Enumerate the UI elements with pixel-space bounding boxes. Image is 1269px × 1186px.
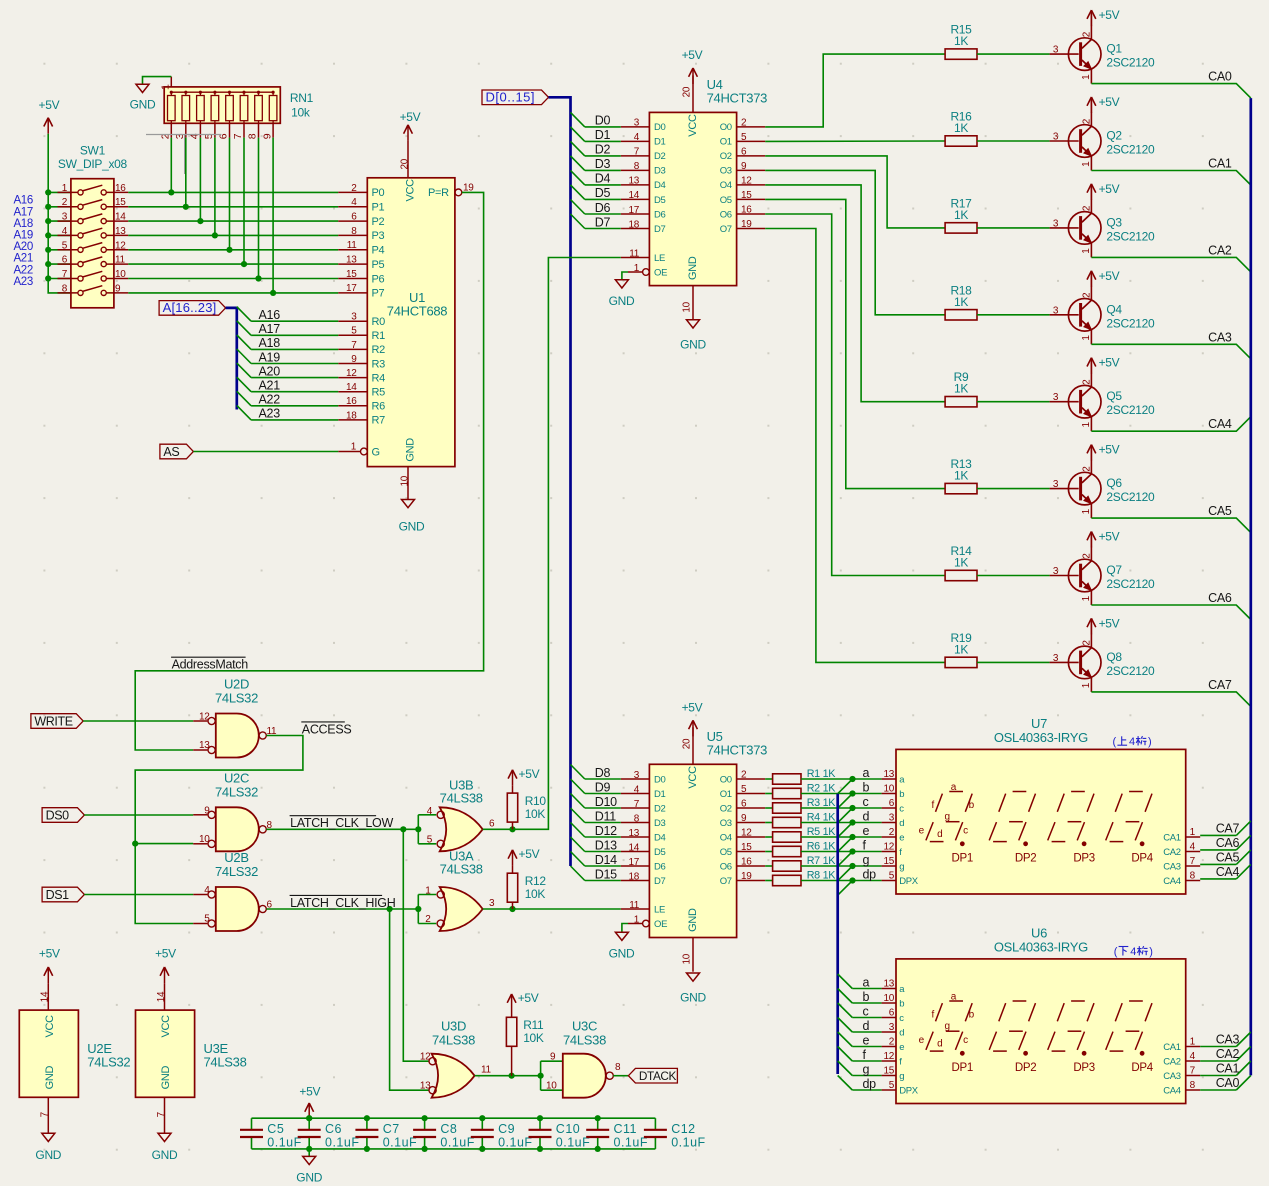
bus D[0..15] bbox=[549, 97, 571, 866]
svg-text:CA3: CA3 bbox=[1216, 1033, 1240, 1047]
svg-text:4: 4 bbox=[1130, 946, 1136, 958]
net label CA1 bbox=[1208, 157, 1232, 171]
wire net WRITE bbox=[83, 720, 193, 722]
svg-text:O7: O7 bbox=[720, 876, 732, 887]
svg-text:74HCT373: 74HCT373 bbox=[707, 742, 768, 757]
ground GND (U1) bbox=[399, 500, 425, 534]
svg-text:6: 6 bbox=[351, 212, 357, 223]
svg-text:VCC: VCC bbox=[160, 1015, 172, 1038]
net label LATCH_CLK_LOW bbox=[290, 816, 394, 830]
svg-text:5: 5 bbox=[204, 914, 210, 925]
svg-text:e: e bbox=[863, 1033, 870, 1047]
ground GND (U4) bbox=[680, 320, 706, 352]
svg-text:0.1uF: 0.1uF bbox=[325, 1136, 359, 1150]
transistor Q6 2SC2120 bbox=[1050, 460, 1155, 518]
svg-text:9: 9 bbox=[204, 805, 210, 816]
svg-text:DP1: DP1 bbox=[952, 1062, 973, 1074]
svg-text:Q5: Q5 bbox=[1106, 389, 1122, 403]
svg-text:GND: GND bbox=[609, 294, 635, 308]
svg-text:3: 3 bbox=[1053, 45, 1059, 56]
svg-text:g: g bbox=[863, 853, 870, 867]
svg-text:O7: O7 bbox=[720, 224, 732, 235]
svg-text:DS1: DS1 bbox=[46, 888, 70, 902]
svg-text:O4: O4 bbox=[720, 832, 732, 843]
net labels a-g dp (U6) bbox=[863, 975, 877, 1091]
svg-text:16: 16 bbox=[115, 183, 126, 194]
bus entries U6 segments bbox=[838, 974, 853, 1090]
resistor R9 1K bbox=[945, 370, 977, 407]
svg-text:A23: A23 bbox=[13, 276, 33, 288]
svg-text:12: 12 bbox=[199, 712, 210, 723]
svg-text:13: 13 bbox=[420, 1081, 431, 1092]
svg-text:A16: A16 bbox=[259, 308, 281, 322]
svg-text:SW_DIP_x08: SW_DIP_x08 bbox=[58, 157, 128, 171]
svg-text:GND: GND bbox=[44, 1066, 56, 1090]
gate U3B 74LS38 bbox=[427, 778, 495, 852]
wire U3B out to U4 LE bbox=[483, 258, 621, 830]
svg-text:O6: O6 bbox=[720, 209, 732, 220]
svg-text:D9: D9 bbox=[595, 780, 611, 794]
svg-text:2SC2120: 2SC2120 bbox=[1106, 490, 1155, 504]
svg-text:D0: D0 bbox=[595, 114, 611, 128]
svg-text:5: 5 bbox=[351, 326, 357, 337]
wire net LATCH_CLK_LOW bbox=[266, 815, 436, 844]
wires D0-D7 to U4 bbox=[585, 127, 621, 229]
svg-text:d: d bbox=[863, 809, 870, 823]
svg-text:c: c bbox=[899, 803, 904, 814]
wires U6 CA1-CA4 to bus bbox=[1200, 1032, 1251, 1090]
svg-text:R5: R5 bbox=[372, 387, 386, 399]
svg-text:OE: OE bbox=[654, 919, 667, 930]
svg-text:DP1: DP1 bbox=[952, 852, 973, 864]
svg-text:R12: R12 bbox=[525, 874, 547, 888]
gate U3A 74LS38 bbox=[425, 849, 495, 932]
svg-text:g: g bbox=[944, 811, 949, 822]
svg-text:c: c bbox=[863, 795, 869, 809]
svg-text:2: 2 bbox=[1082, 292, 1093, 298]
ground GND (U3E) bbox=[152, 1133, 178, 1162]
svg-text:3: 3 bbox=[1053, 218, 1059, 229]
bus A[16..23] bbox=[226, 308, 237, 410]
capacitor C8 0.1uF bbox=[413, 1118, 475, 1149]
svg-text:+5V: +5V bbox=[400, 110, 421, 124]
svg-text:O1: O1 bbox=[720, 789, 732, 800]
transistor Q4 2SC2120 bbox=[1050, 286, 1155, 345]
svg-text:OSL40363-IRYG: OSL40363-IRYG bbox=[994, 940, 1088, 955]
svg-text:D0: D0 bbox=[654, 122, 666, 133]
svg-text:1: 1 bbox=[1081, 335, 1092, 341]
svg-text:d: d bbox=[937, 829, 942, 840]
svg-text:CA5: CA5 bbox=[1208, 504, 1232, 518]
svg-text:74LS38: 74LS38 bbox=[440, 791, 483, 806]
svg-text:1: 1 bbox=[1081, 422, 1092, 428]
svg-text:O2: O2 bbox=[720, 803, 732, 814]
svg-text:a: a bbox=[863, 766, 870, 780]
svg-text:GND: GND bbox=[399, 520, 425, 534]
svg-text:3: 3 bbox=[1053, 305, 1059, 316]
svg-text:D3: D3 bbox=[654, 166, 666, 177]
hierarchical labels A16-A23 bbox=[13, 195, 33, 288]
svg-text:1K: 1K bbox=[954, 556, 968, 570]
wire segment c to U7 bbox=[801, 807, 882, 809]
svg-text:DS0: DS0 bbox=[46, 808, 70, 822]
svg-text:12: 12 bbox=[883, 1051, 894, 1062]
svg-text:OE: OE bbox=[654, 267, 667, 278]
svg-text:+5V: +5V bbox=[518, 991, 539, 1005]
svg-text:AS: AS bbox=[163, 445, 179, 459]
svg-text:2: 2 bbox=[1082, 379, 1093, 385]
svg-text:D7: D7 bbox=[654, 876, 666, 887]
bus label A[16..23] bbox=[159, 300, 226, 315]
power +5V (U3E) bbox=[155, 947, 176, 984]
gate U3D 74LS38 bbox=[420, 1019, 492, 1098]
transistor Q2 2SC2120 bbox=[1050, 112, 1155, 171]
svg-text:O1: O1 bbox=[720, 137, 732, 148]
svg-text:G: G bbox=[372, 446, 380, 458]
svg-text:VCC: VCC bbox=[687, 766, 699, 789]
svg-text:b: b bbox=[969, 1010, 975, 1021]
svg-text:R0: R0 bbox=[372, 316, 386, 328]
svg-text:2: 2 bbox=[62, 197, 68, 208]
svg-text:3: 3 bbox=[1053, 479, 1059, 490]
svg-text:9: 9 bbox=[351, 354, 357, 365]
svg-text:Q2: Q2 bbox=[1106, 129, 1122, 143]
wire segment g to U7 bbox=[801, 865, 882, 867]
svg-text:2: 2 bbox=[351, 183, 357, 194]
svg-text:Q1: Q1 bbox=[1106, 42, 1122, 56]
svg-text:4: 4 bbox=[634, 784, 640, 795]
bus entries D0-D7 bbox=[571, 112, 585, 228]
ground GND (RN1) bbox=[130, 84, 156, 111]
svg-text:R6: R6 bbox=[372, 401, 386, 413]
svg-text:6: 6 bbox=[741, 799, 747, 810]
svg-text:D[0..15]: D[0..15] bbox=[486, 90, 536, 105]
svg-text:18: 18 bbox=[346, 410, 357, 421]
svg-text:GND: GND bbox=[609, 947, 635, 961]
svg-text:C6: C6 bbox=[325, 1122, 342, 1136]
wire R18 to Q4 base bbox=[977, 314, 1050, 316]
svg-text:A19: A19 bbox=[13, 230, 33, 242]
svg-text:O3: O3 bbox=[720, 818, 732, 829]
svg-text:RN1: RN1 bbox=[290, 91, 314, 105]
svg-text:d: d bbox=[899, 1027, 904, 1038]
wire R9 to Q5 base bbox=[977, 401, 1050, 403]
resistor R3 1K bbox=[765, 797, 836, 813]
svg-text:GND: GND bbox=[680, 338, 706, 352]
svg-text:GND: GND bbox=[405, 438, 417, 462]
svg-text:8: 8 bbox=[351, 226, 357, 237]
svg-text:A22: A22 bbox=[13, 264, 33, 276]
gate U2D 74LS32 bbox=[193, 677, 277, 758]
resistor R14 1K bbox=[945, 544, 977, 581]
wire segment a to U7 bbox=[801, 778, 882, 780]
svg-text:A19: A19 bbox=[259, 350, 281, 364]
wire segment e to U7 bbox=[801, 836, 882, 838]
svg-text:CA3: CA3 bbox=[1163, 1071, 1181, 1082]
svg-text:12: 12 bbox=[115, 240, 126, 251]
svg-text:8: 8 bbox=[62, 283, 68, 294]
svg-text:GND: GND bbox=[680, 991, 706, 1005]
svg-text:1: 1 bbox=[1081, 682, 1092, 688]
svg-text:74LS32: 74LS32 bbox=[215, 784, 258, 799]
svg-text:c: c bbox=[963, 1035, 968, 1046]
svg-text:D10: D10 bbox=[595, 795, 617, 809]
svg-text:CA1: CA1 bbox=[1216, 1062, 1240, 1076]
svg-text:g: g bbox=[899, 861, 904, 872]
svg-text:10K: 10K bbox=[523, 1031, 544, 1045]
svg-text:3: 3 bbox=[1053, 566, 1059, 577]
svg-text:GND: GND bbox=[296, 1171, 322, 1185]
wires RN1 pins 2-9 to switch rows bbox=[171, 138, 273, 293]
power +5V (Q3) bbox=[1087, 182, 1120, 200]
power +5V (Q7) bbox=[1087, 530, 1120, 548]
bus entries A16-A23 bbox=[237, 307, 251, 420]
svg-text:D2: D2 bbox=[654, 803, 666, 814]
wire R15 to Q1 base bbox=[977, 53, 1050, 55]
svg-text:7: 7 bbox=[634, 799, 640, 810]
svg-text:d: d bbox=[937, 1039, 942, 1050]
wire segment b to U7 bbox=[801, 793, 882, 795]
svg-text:CA4: CA4 bbox=[1163, 876, 1181, 887]
svg-text:SW1: SW1 bbox=[80, 144, 106, 158]
svg-text:D2: D2 bbox=[654, 151, 666, 162]
gate U2B 74LS32 bbox=[193, 850, 272, 931]
net labels CA3-CA0 (U6) bbox=[1216, 1033, 1240, 1091]
svg-text:4: 4 bbox=[634, 132, 640, 143]
wire segment d to U7 bbox=[801, 822, 882, 824]
svg-text:R10: R10 bbox=[525, 794, 547, 808]
svg-text:11: 11 bbox=[629, 248, 640, 259]
svg-text:dp: dp bbox=[863, 1077, 877, 1091]
net label CA2 bbox=[1208, 243, 1232, 257]
net labels D0-D7 bbox=[595, 114, 611, 230]
svg-text:U2D: U2D bbox=[224, 677, 249, 692]
svg-text:4: 4 bbox=[1190, 842, 1196, 853]
svg-text:a: a bbox=[951, 782, 957, 793]
wire net CA3 from Q4 emitter bbox=[1091, 344, 1250, 359]
svg-text:7: 7 bbox=[634, 147, 640, 158]
junction dot cap +5V bbox=[306, 1115, 312, 1121]
svg-text:+5V: +5V bbox=[682, 48, 703, 62]
svg-text:20: 20 bbox=[400, 158, 411, 169]
wire R19 to Q8 base bbox=[977, 661, 1050, 663]
svg-text:3: 3 bbox=[1053, 653, 1059, 664]
resistor R18 1K bbox=[945, 283, 977, 320]
svg-text:16: 16 bbox=[741, 205, 752, 216]
wires SW1 to U1 P0-P7 bbox=[128, 192, 338, 293]
svg-text:+5V: +5V bbox=[519, 847, 540, 861]
resistor R12 10K bbox=[507, 866, 546, 909]
svg-text:4: 4 bbox=[1129, 736, 1135, 748]
svg-text:GND: GND bbox=[35, 1148, 61, 1162]
svg-text:74LS38: 74LS38 bbox=[440, 862, 483, 877]
wire net +5V to SW1 pins 1-8 bbox=[48, 134, 78, 293]
svg-text:P0: P0 bbox=[372, 187, 385, 199]
svg-text:P6: P6 bbox=[372, 273, 385, 285]
svg-text:13: 13 bbox=[346, 255, 357, 266]
svg-text:CA7: CA7 bbox=[1208, 678, 1232, 692]
svg-text:2SC2120: 2SC2120 bbox=[1106, 56, 1155, 70]
svg-text:15: 15 bbox=[883, 856, 894, 867]
svg-text:9: 9 bbox=[261, 133, 273, 139]
svg-text:2SC2120: 2SC2120 bbox=[1106, 229, 1155, 243]
svg-text:GND: GND bbox=[160, 1066, 172, 1090]
wire net CA5 from Q6 emitter bbox=[1091, 518, 1250, 533]
net label CA6 bbox=[1208, 591, 1232, 605]
svg-text:A22: A22 bbox=[259, 393, 281, 407]
svg-text:R2: R2 bbox=[372, 344, 386, 356]
svg-text:e: e bbox=[863, 824, 870, 838]
svg-text:A[16..23]: A[16..23] bbox=[163, 300, 217, 315]
wire LATCH_CLK_LOW to U3D pin12 bbox=[403, 829, 429, 1061]
svg-text:7: 7 bbox=[40, 1111, 51, 1117]
ic U2E 74LS32 (power) bbox=[19, 983, 130, 1133]
power +5V (U1) bbox=[400, 110, 421, 141]
svg-text:13: 13 bbox=[628, 828, 639, 839]
svg-text:0.1uF: 0.1uF bbox=[440, 1136, 474, 1150]
ic U4 74HCT373 bbox=[621, 75, 767, 319]
svg-text:D14: D14 bbox=[595, 853, 617, 867]
transistor Q3 2SC2120 bbox=[1050, 199, 1155, 258]
svg-text:CA0: CA0 bbox=[1208, 70, 1232, 84]
svg-text:a: a bbox=[863, 975, 870, 989]
wire net AddressMatch bbox=[135, 192, 483, 750]
svg-text:D3: D3 bbox=[654, 818, 666, 829]
svg-text:A16: A16 bbox=[13, 195, 33, 207]
svg-text:O4: O4 bbox=[720, 180, 732, 191]
svg-text:D1: D1 bbox=[654, 789, 666, 800]
power +5V (Q4) bbox=[1087, 269, 1120, 287]
svg-text:DP4: DP4 bbox=[1131, 852, 1153, 864]
svg-text:U3D: U3D bbox=[441, 1019, 466, 1034]
svg-text:14: 14 bbox=[40, 991, 51, 1002]
svg-text:+5V: +5V bbox=[1099, 95, 1120, 109]
svg-text:C5: C5 bbox=[267, 1122, 284, 1136]
svg-text:16: 16 bbox=[346, 396, 357, 407]
bus entries U7 segments bbox=[838, 779, 853, 895]
svg-text:DP3: DP3 bbox=[1073, 1062, 1094, 1074]
svg-text:3: 3 bbox=[351, 312, 357, 323]
svg-text:P2: P2 bbox=[372, 216, 385, 228]
svg-text:+5V: +5V bbox=[1099, 616, 1120, 630]
svg-text:D0: D0 bbox=[654, 774, 666, 785]
net label CA7 bbox=[1208, 678, 1232, 692]
net label ACCESS bbox=[301, 722, 351, 736]
svg-text:0.1uF: 0.1uF bbox=[614, 1136, 648, 1150]
svg-text:+5V: +5V bbox=[1099, 530, 1120, 544]
svg-text:): ) bbox=[1149, 946, 1152, 958]
svg-text:10: 10 bbox=[883, 993, 894, 1004]
wire net DS1 bbox=[84, 894, 193, 896]
svg-text:D6: D6 bbox=[595, 201, 611, 215]
svg-text:R4: R4 bbox=[372, 372, 386, 384]
junction dots DTACK gate input bbox=[509, 1073, 544, 1079]
svg-text:2: 2 bbox=[1082, 640, 1093, 646]
svg-text:D5: D5 bbox=[654, 847, 666, 858]
net label AddressMatch bbox=[171, 657, 248, 671]
display U7 OSL40363-IRYG bbox=[882, 716, 1201, 894]
svg-text:A20: A20 bbox=[13, 241, 33, 253]
svg-text:5: 5 bbox=[741, 132, 747, 143]
wire net DS0 bbox=[84, 814, 193, 816]
svg-text:A17: A17 bbox=[259, 322, 281, 336]
power +5V (R12) bbox=[508, 847, 539, 866]
svg-text:10: 10 bbox=[546, 1081, 557, 1092]
svg-text:8: 8 bbox=[615, 1062, 621, 1073]
svg-text:D15: D15 bbox=[595, 867, 617, 881]
svg-text:10: 10 bbox=[400, 475, 411, 486]
ground GND (cap rail) bbox=[296, 1149, 322, 1185]
svg-text:d: d bbox=[863, 1019, 870, 1033]
svg-text:3: 3 bbox=[1053, 132, 1059, 143]
svg-text:A20: A20 bbox=[259, 364, 281, 378]
svg-text:CA3: CA3 bbox=[1163, 861, 1181, 872]
svg-text:O5: O5 bbox=[720, 195, 732, 206]
svg-text:2: 2 bbox=[741, 770, 747, 781]
power +5V (R10) bbox=[508, 767, 539, 786]
svg-text:C11: C11 bbox=[614, 1122, 638, 1136]
junction dot R10 bbox=[509, 826, 515, 832]
global label DS0 bbox=[42, 808, 84, 823]
svg-text:0.1uF: 0.1uF bbox=[556, 1136, 590, 1150]
svg-text:CA6: CA6 bbox=[1216, 836, 1240, 850]
net label CA3 bbox=[1208, 330, 1232, 344]
svg-text:P1: P1 bbox=[372, 202, 385, 214]
svg-text:1: 1 bbox=[1081, 508, 1092, 514]
transistor Q7 2SC2120 bbox=[1050, 547, 1155, 606]
wire net CA1 from Q2 emitter bbox=[1091, 171, 1250, 186]
svg-text:D2: D2 bbox=[595, 143, 611, 157]
svg-text:LE: LE bbox=[654, 253, 665, 264]
svg-text:9: 9 bbox=[741, 161, 747, 172]
svg-text:U2B: U2B bbox=[224, 850, 248, 865]
resistor R4 1K bbox=[765, 812, 836, 828]
transistor Q8 2SC2120 bbox=[1050, 633, 1155, 692]
svg-text:R11: R11 bbox=[523, 1018, 544, 1032]
wire net CA6 from Q7 emitter bbox=[1091, 605, 1250, 620]
svg-text:DPX: DPX bbox=[899, 1085, 919, 1096]
svg-text:c: c bbox=[963, 826, 968, 837]
svg-text:CA2: CA2 bbox=[1163, 847, 1181, 858]
net label LATCH_CLK_HIGH bbox=[290, 895, 396, 909]
wire U3D out to U3C bbox=[475, 1061, 563, 1090]
svg-text:P=R: P=R bbox=[428, 187, 449, 199]
svg-text:2: 2 bbox=[889, 1037, 895, 1048]
svg-text:DTACK: DTACK bbox=[639, 1069, 677, 1083]
svg-text:20: 20 bbox=[682, 86, 693, 97]
junction dots segment nets bbox=[849, 776, 855, 884]
svg-text:13: 13 bbox=[115, 226, 126, 237]
resistor R13 1K bbox=[945, 457, 977, 494]
svg-text:7: 7 bbox=[232, 133, 244, 139]
svg-text:D3: D3 bbox=[595, 157, 611, 171]
svg-text:3: 3 bbox=[889, 813, 895, 824]
svg-text:3: 3 bbox=[62, 212, 68, 223]
svg-text:dp: dp bbox=[863, 867, 877, 881]
capacitor C6 0.1uF bbox=[298, 1118, 360, 1149]
svg-text:0.1uF: 0.1uF bbox=[383, 1136, 417, 1150]
svg-text:CA0: CA0 bbox=[1216, 1076, 1240, 1090]
svg-text:10: 10 bbox=[883, 784, 894, 795]
svg-text:D7: D7 bbox=[654, 224, 666, 235]
resistor R5 1K bbox=[765, 826, 836, 842]
svg-text:+5V: +5V bbox=[1099, 356, 1120, 370]
svg-text:2SC2120: 2SC2120 bbox=[1106, 143, 1155, 157]
net label CA0 bbox=[1208, 70, 1232, 84]
svg-text:P7: P7 bbox=[372, 288, 385, 300]
svg-text:A18: A18 bbox=[13, 218, 33, 230]
svg-text:CA1: CA1 bbox=[1208, 157, 1232, 171]
